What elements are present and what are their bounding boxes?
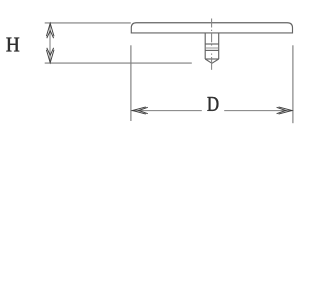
vertical centerline (dash-dot) (211, 19, 213, 70)
D dimension left extension line (130, 45, 132, 121)
D arrowhead left inner (139, 107, 148, 113)
stem groove line 1 (205, 43, 219, 45)
stem left edge (204, 33, 206, 59)
H arrowhead down inner (47, 48, 54, 56)
D dimension line right segment (224, 110, 292, 112)
label D (207, 97, 218, 111)
H arrowhead up inner (47, 31, 54, 39)
cap outline (disc head, side view) (131, 23, 292, 33)
H arrowhead up outer (46, 23, 54, 36)
label H (6, 38, 19, 52)
D dimension right extension line (292, 45, 294, 123)
stem right edge (218, 33, 220, 59)
stem groove line 2 (light) (205, 47, 219, 49)
D arrowhead left outer (132, 107, 145, 114)
H dimension line (vertical) (49, 23, 51, 63)
D dimension line left segment (132, 110, 202, 112)
H dimension bottom extension line (45, 62, 192, 64)
stem tip chamfer right (212, 59, 219, 63)
D arrowhead right outer (279, 107, 292, 114)
stem groove line 3 (205, 49, 219, 51)
H dimension top extension line (45, 22, 131, 24)
stem tip shoulder line (205, 58, 219, 60)
stem tip chamfer left (205, 59, 212, 63)
D arrowhead right inner (277, 107, 286, 113)
H arrowhead down outer (46, 50, 54, 63)
